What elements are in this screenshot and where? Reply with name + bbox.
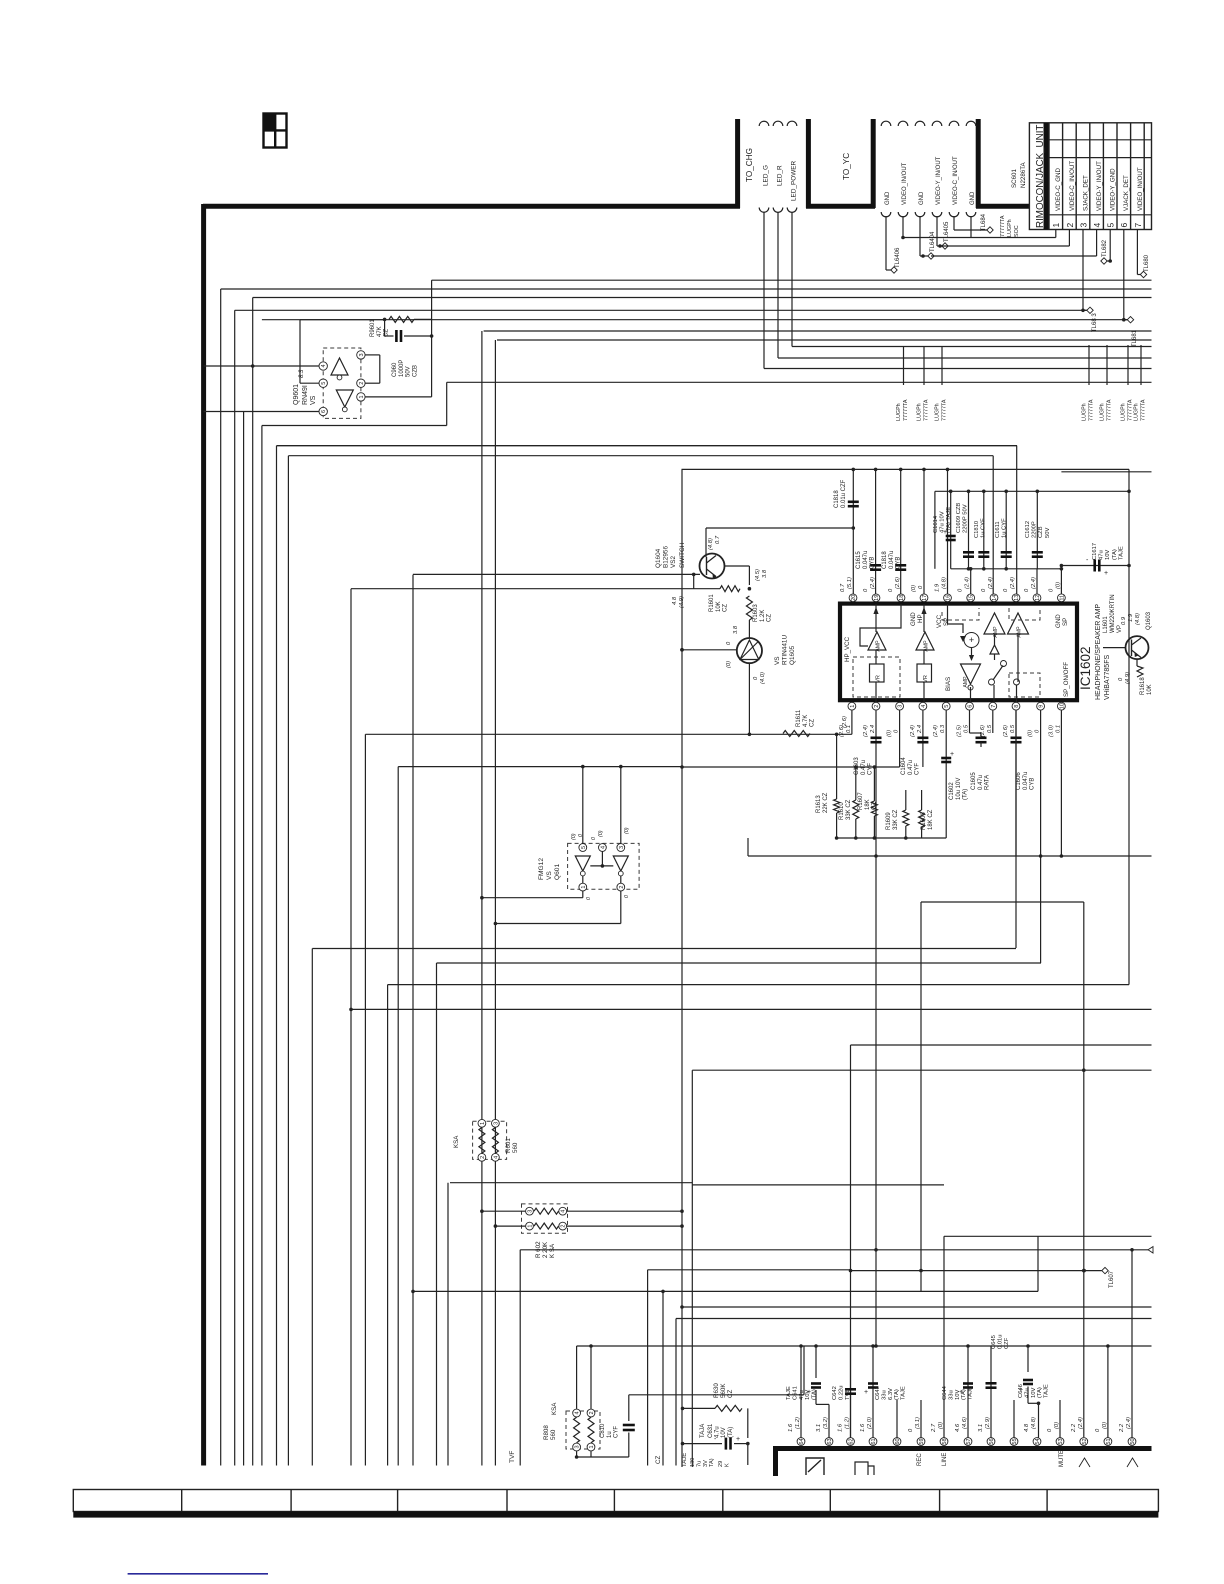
wire Q1604 base net (413, 573, 700, 575)
svg-text:(TA): (TA) (961, 1389, 967, 1400)
pin SOC-59 (917, 1438, 925, 1446)
capacitor C1604 0.47u CYF (922, 711, 924, 768)
svg-text:63: 63 (827, 1438, 833, 1444)
svg-text:R9601: R9601 (370, 319, 376, 337)
wire pin17 stub (923, 469, 925, 594)
svg-text:1000P: 1000P (399, 360, 405, 377)
svg-text:(2.4): (2.4) (910, 725, 916, 737)
svg-text:TAJA: TAJA (700, 1424, 706, 1438)
svg-text:58: 58 (942, 1438, 948, 1444)
wire TO_YC VIDEO-C_IN/OUT (953, 216, 955, 230)
svg-text:1.6: 1.6 (860, 1423, 866, 1432)
svg-text:560: 560 (512, 1142, 519, 1153)
svg-text:10K: 10K (716, 601, 722, 612)
svg-text:MUTE: MUTE (1059, 1450, 1065, 1467)
wire bus net B (221, 288, 1152, 290)
svg-text:HP_VCC: HP_VCC (844, 636, 851, 662)
svg-text:(2.0): (2.0) (867, 1417, 873, 1429)
svg-text:+: + (1104, 570, 1108, 577)
svg-text:0: 0 (578, 834, 584, 837)
svg-text:19: 19 (874, 595, 880, 601)
wire pin58 vertical (943, 1236, 945, 1437)
svg-text:(2.6): (2.6) (1003, 725, 1009, 737)
capacitor C1818 0.01u CZF (852, 469, 854, 594)
wire net T resistor bus (837, 837, 947, 839)
svg-text:6: 6 (1119, 223, 1129, 228)
svg-text:1: 1 (581, 886, 587, 889)
svg-text:10K: 10K (1147, 684, 1153, 695)
svg-text:R1613: R1613 (816, 795, 822, 813)
svg-text:GND: GND (919, 191, 925, 205)
svg-text:VIDEO_IN/OUT: VIDEO_IN/OUT (902, 162, 908, 205)
svg-text:TL6404: TL6404 (930, 231, 936, 252)
svg-text:RTIN441U: RTIN441U (782, 635, 789, 665)
wire pin3 net (899, 711, 901, 768)
wire net M emitter bus (351, 588, 720, 590)
svg-text:SC601: SC601 (1011, 169, 1018, 188)
svg-text:R1611: R1611 (796, 709, 802, 727)
svg-text:3.1: 3.1 (978, 1424, 984, 1432)
pin Q9601-5 (319, 379, 327, 387)
wire pin59 stub (920, 1400, 922, 1438)
wire net AM (413, 1290, 1038, 1292)
svg-text:29: 29 (718, 1461, 724, 1467)
net tag LUGPh 77777TA group2 (1088, 345, 1090, 385)
svg-text:N2286TA: N2286TA (1020, 161, 1027, 188)
wire pin51 vertical (1107, 1346, 1109, 1438)
dashed box IC1602 VR (853, 657, 900, 697)
svg-text:FMG12: FMG12 (538, 858, 545, 880)
svg-text:1: 1 (850, 705, 856, 708)
wire Q601 link (590, 865, 613, 867)
svg-text:RATA: RATA (985, 775, 991, 790)
svg-text:(2.6): (2.6) (895, 577, 901, 589)
wire net AK vertical (519, 1250, 521, 1466)
svg-text:64: 64 (799, 1438, 805, 1444)
svg-text:3: 3 (493, 1122, 499, 1125)
svg-text:CYF: CYF (915, 763, 921, 775)
wire Q601 pin1 out (582, 891, 584, 898)
svg-text:CYF: CYF (614, 1426, 620, 1438)
svg-text:(2.9): (2.9) (985, 1417, 991, 1429)
svg-text:SP_ON/OFF: SP_ON/OFF (1063, 662, 1070, 697)
svg-text:LED_R: LED_R (777, 165, 784, 186)
net terminal TL6406 (891, 267, 897, 273)
wire caps box top (935, 490, 1129, 492)
svg-text:+: + (969, 635, 974, 645)
svg-text:(TA): (TA) (894, 1389, 900, 1400)
svg-text:57: 57 (966, 1438, 972, 1444)
wire Q1603 emitter to R1618 (1136, 659, 1138, 666)
capacitor C1615 0.047u CYB (875, 469, 877, 594)
svg-text:(5.1): (5.1) (847, 577, 853, 589)
wire net R to C1617 (1061, 565, 1129, 567)
svg-text:3: 3 (575, 1445, 581, 1448)
wire pin60 stub (896, 1400, 898, 1438)
capacitor C1614 47u 10V TAJE (950, 491, 952, 569)
pin Q601-2 (617, 883, 625, 891)
svg-text:560K: 560K (720, 1383, 727, 1398)
pin SOC-61 (869, 1438, 877, 1446)
svg-text:GND: GND (910, 612, 917, 626)
svg-text:0.047u: 0.047u (863, 551, 869, 569)
svg-text:C1818: C1818 (834, 490, 840, 508)
svg-text:TAJE: TAJE (1044, 1384, 1050, 1398)
pin IC1602-14 (990, 594, 998, 602)
wire jack pin5 VIDEO-Y_GND to TL682 (1109, 230, 1111, 262)
svg-text:(TA): (TA) (1037, 1387, 1043, 1398)
wire pin16 stub (947, 469, 949, 594)
pin R602-1 (526, 1222, 534, 1230)
resistor R1610 33K CZ (855, 767, 857, 800)
svg-text:(2.6): (2.6) (842, 716, 848, 728)
op-amp IC1602 amp3 (984, 613, 1005, 634)
wire Q1604 collector (705, 528, 707, 557)
pin IC1602-8 (1012, 702, 1020, 710)
svg-text:(TA): (TA) (963, 789, 969, 800)
svg-text:1.6: 1.6 (788, 1423, 794, 1432)
wire net AN (682, 1306, 1152, 1308)
svg-text:4.7K: 4.7K (803, 715, 809, 727)
svg-text:0.7: 0.7 (715, 535, 721, 544)
svg-text:HEADPHONE/SPEAKER AMP: HEADPHONE/SPEAKER AMP (1095, 604, 1102, 700)
pin IC1602-16 (944, 594, 952, 602)
svg-text:LUGPh: LUGPh (1121, 403, 1127, 421)
svg-text:CZ: CZ (767, 614, 773, 622)
svg-text:(4.8): (4.8) (1135, 613, 1141, 625)
svg-text:C1611: C1611 (995, 521, 1001, 538)
svg-text:47K: 47K (377, 326, 383, 337)
svg-text:2.4: 2.4 (917, 725, 923, 734)
svg-text:3: 3 (619, 846, 625, 849)
wire jack pin4 VIDEO-Y_IN/OUT (1096, 230, 1098, 257)
svg-text:(2.4): (2.4) (1078, 1417, 1084, 1429)
wire net AI (450, 1182, 692, 1184)
resistor R601 element2 (492, 1128, 498, 1154)
svg-text:+: + (950, 751, 954, 758)
capacitor C1618 0.047u CYB (900, 469, 902, 594)
svg-text:2: 2 (874, 705, 880, 708)
svg-text:77777TA: 77777TA (924, 399, 930, 421)
wire main ground bus top (203, 204, 740, 209)
svg-text:(2.4): (2.4) (933, 725, 939, 737)
svg-text:TVF: TVF (509, 1451, 516, 1463)
svg-text:77777TA: 77777TA (942, 399, 948, 421)
dashed link IC1602 top (942, 608, 979, 620)
capacitor C631 4.7u 10V (TA) TAJA (683, 1443, 723, 1445)
wire net AG (692, 1184, 944, 1186)
svg-text:TO_CHG: TO_CHG (745, 148, 754, 182)
switch IC1602 (989, 679, 995, 685)
svg-text:560: 560 (550, 1429, 557, 1440)
capacitor C646 47u 10V (TA) TAJE (1027, 1346, 1029, 1372)
svg-text:R1603: R1603 (753, 604, 759, 622)
pin SOC-60 (893, 1438, 901, 1446)
wire pin55 stub (1013, 1400, 1015, 1438)
wire net AJ (944, 1235, 1152, 1237)
svg-text:CZB: CZB (1038, 526, 1044, 538)
svg-text:10: 10 (1059, 703, 1065, 709)
resistor R1611 4.7K CZ (783, 731, 810, 737)
wire C631 down (747, 1444, 749, 1465)
svg-text:(TA): (TA) (728, 1427, 734, 1438)
svg-text:7: 7 (1133, 223, 1143, 228)
pin IC1602-15 (967, 594, 975, 602)
svg-text:C645: C645 (991, 1335, 997, 1349)
page logo checker mark (264, 114, 287, 148)
svg-text:R601: R601 (505, 1138, 512, 1153)
svg-text:1.6: 1.6 (838, 1423, 844, 1432)
pin IC1602-17 (920, 594, 928, 602)
wire Q601 pin2 out (620, 891, 622, 924)
wire net AC (351, 1008, 1152, 1010)
pin Q9601-3 (357, 351, 365, 359)
wire net X vertical (1015, 711, 1017, 949)
pin Q9601-4 (319, 362, 327, 370)
svg-text:Q601: Q601 (554, 864, 561, 880)
svg-text:0.5: 0.5 (964, 724, 970, 733)
svg-text:CZ: CZ (872, 802, 878, 810)
svg-text:VIDEO-Y_GND: VIDEO-Y_GND (1110, 168, 1117, 211)
svg-text:0.47u: 0.47u (978, 775, 984, 790)
pin IC1602-11 (1058, 594, 1066, 602)
svg-text:54: 54 (1035, 1438, 1041, 1444)
svg-text:1: 1 (480, 1122, 486, 1125)
wire jack pin3 SJACK_DET to TL68-3 (1082, 230, 1084, 311)
svg-text:2200P 50V: 2200P 50V (963, 504, 969, 533)
svg-text:(4.0): (4.0) (760, 672, 766, 684)
wire pin12 stub (1036, 569, 1038, 594)
wire TO_YC pin6 GND (970, 216, 972, 238)
wire net AE down-right L2 (692, 1069, 1151, 1071)
svg-text:(4.5): (4.5) (755, 569, 761, 581)
svg-text:VIDEO-Y_IN/OUT: VIDEO-Y_IN/OUT (1096, 161, 1103, 211)
svg-text:0.9: 0.9 (1121, 616, 1127, 625)
svg-text:3: 3 (359, 353, 365, 356)
SOC internal glyphs (806, 1458, 824, 1475)
svg-text:0.01u CZF: 0.01u CZF (841, 479, 847, 508)
wire net AM vertical (1037, 1236, 1039, 1291)
pin R601-2 (478, 1153, 486, 1161)
capacitor C1606 0.047u CYB (1015, 711, 1017, 857)
resistor R1601 10K CZ (693, 574, 695, 588)
pin IC1602-10 (1058, 702, 1066, 710)
svg-text:+: + (736, 1436, 740, 1443)
wire TO_YC VIDEO_IN/OUT (902, 216, 904, 238)
svg-text:6: 6 (968, 705, 974, 708)
svg-text:VIDEO-Y_IN/OUT: VIDEO-Y_IN/OUT (936, 156, 942, 205)
svg-text:WM220KRTIN: WM220KRTIN (1110, 594, 1116, 633)
svg-text:LUGPh: LUGPh (1134, 403, 1140, 421)
wire net AL TL607 (851, 1270, 1102, 1272)
wire LED_POWER (791, 212, 793, 347)
wire Q9601 pin3-pin2 loop (365, 354, 380, 356)
svg-text:4: 4 (561, 1210, 567, 1213)
off-page arrows below SOC (1079, 1458, 1090, 1467)
svg-text:(3.2): (3.2) (823, 1417, 829, 1429)
resistor R1603 1.2K CZ (746, 596, 752, 620)
svg-text:1.2K: 1.2K (760, 610, 766, 622)
svg-text:C1604: C1604 (901, 757, 907, 775)
svg-text:K: K (724, 1463, 730, 1467)
svg-text:C810: C810 (600, 1423, 606, 1438)
wire Q1603 base (1103, 647, 1126, 649)
svg-text:33K CZ: 33K CZ (893, 809, 899, 830)
wire IC1602 amp2 chain (923, 604, 925, 632)
wire pin14 from bus (992, 456, 994, 594)
pin IC1602-6 (966, 702, 974, 710)
svg-text:0.5: 0.5 (1010, 724, 1016, 733)
pin IC1602-1 (848, 702, 856, 710)
inverter Q9601 gate1 (331, 358, 348, 375)
wire TO_YC VIDEO-Y_IN/OUT to TL6405 (936, 216, 938, 246)
wire left bus vertical 3 (243, 412, 245, 1466)
connector TO_YC (881, 121, 891, 126)
wire TO_YC pin3 GND to TL6404 (919, 216, 921, 256)
svg-text:47u: 47u (1099, 550, 1105, 560)
pin SOC-62 (847, 1438, 855, 1446)
wire R808 pins down (576, 1451, 578, 1457)
svg-text:TL607: TL607 (1109, 1270, 1115, 1288)
pin IC1602-13 (1012, 594, 1020, 602)
inverter Q601 gate2 (613, 856, 628, 871)
svg-text:3.8: 3.8 (733, 625, 739, 634)
resistor array R602 20K KSA dashed outline (522, 1204, 568, 1233)
svg-text:1: 1 (528, 1225, 534, 1228)
svg-text:(0): (0) (887, 730, 893, 737)
svg-text:0.047u: 0.047u (889, 551, 895, 569)
wire bus net E (262, 319, 1127, 321)
wire net O (398, 766, 682, 768)
svg-text:C1602: C1602 (949, 782, 955, 800)
svg-text:0.3: 0.3 (940, 724, 946, 733)
svg-text:0.22u: 0.22u (838, 1385, 844, 1400)
svg-text:TVB: TVB (845, 1389, 851, 1400)
connector TO_CHG left wall (735, 119, 740, 208)
capacitor C1612 2200P CZB 50V (1036, 491, 1038, 569)
wire IC1602 amp1 chain (875, 604, 877, 632)
svg-text:SJACK_DET: SJACK_DET (1082, 175, 1089, 211)
svg-text:8: 8 (1014, 705, 1020, 708)
svg-text:77777TA: 77777TA (1089, 399, 1095, 421)
svg-text:LUGPh: LUGPh (1082, 403, 1088, 421)
svg-text:12: 12 (1035, 595, 1041, 601)
wire net V vertical (920, 902, 922, 1291)
svg-text:(0): (0) (1055, 582, 1061, 589)
wire R1603 to Q1605 (748, 620, 750, 638)
wire left bus vertical 13 (412, 575, 414, 1466)
wire pin53 stub (1059, 1400, 1061, 1438)
wire Q601 pin3 up (620, 767, 622, 844)
capacitor C1602 10u 10V (TA) (945, 711, 947, 839)
svg-text:C1617: C1617 (1092, 543, 1098, 560)
wire R602 row1 (482, 1210, 525, 1212)
svg-text:LUGPh: LUGPh (935, 403, 941, 421)
svg-text:59: 59 (919, 1438, 925, 1444)
svg-text:KSA: KSA (453, 1135, 460, 1148)
svg-text:5: 5 (944, 705, 950, 708)
svg-text:R1607: R1607 (858, 792, 864, 810)
wire caps bottom bus (951, 568, 1062, 570)
resistor R1606 18K CZ (919, 810, 925, 827)
svg-text:TL6406: TL6406 (895, 247, 901, 268)
svg-text:VS: VS (774, 656, 781, 665)
svg-text:6: 6 (321, 410, 327, 413)
svg-text:VHiBA7785FS: VHiBA7785FS (1104, 655, 1111, 700)
svg-text:CYB: CYB (1030, 778, 1036, 790)
svg-text:4.8: 4.8 (1024, 1423, 1030, 1432)
wire Q1604 emitter (725, 565, 750, 567)
pin IC1602-9 (1037, 702, 1045, 710)
svg-text:4: 4 (1092, 223, 1102, 228)
svg-text:(0): (0) (624, 827, 630, 834)
resistor R630 560K CZ (683, 1407, 716, 1409)
svg-text:C1818: C1818 (882, 551, 888, 569)
svg-text:HP: HP (917, 614, 924, 623)
svg-text:TA): TA) (709, 1458, 715, 1467)
capacitor C644 33u 10V (TA) TAJE (967, 1346, 969, 1438)
svg-text:13: 13 (1014, 595, 1020, 601)
svg-text:C1606: C1606 (1016, 772, 1022, 790)
wire left bus vertical 5 (261, 426, 263, 1466)
wire left bus vertical 11 (364, 734, 366, 1465)
wire left bus vertical 14 (436, 963, 438, 1466)
wire net K (447, 381, 1152, 383)
svg-text:CYF: CYF (868, 763, 874, 775)
svg-text:LINE: LINE (942, 1453, 948, 1466)
svg-text:4.6: 4.6 (955, 1423, 961, 1432)
svg-text:(4.6): (4.6) (962, 1417, 968, 1429)
svg-text:TL681: TL681 (1132, 329, 1138, 347)
svg-text:22K CZ: 22K CZ (823, 792, 829, 813)
pin R601-4 (492, 1153, 500, 1161)
net tag LUGPh 77777TA group1 (903, 347, 905, 386)
svg-text:C644: C644 (942, 1385, 948, 1400)
pin Q9601-1 (357, 393, 365, 401)
svg-text:7: 7 (991, 705, 997, 708)
wire net X (312, 948, 1016, 950)
transistor Q1605 RTIN441U (737, 638, 762, 663)
svg-text:R1610: R1610 (839, 802, 845, 820)
resistor R1618 10K (1137, 666, 1143, 677)
pin SOC-64 (797, 1438, 805, 1446)
pin IC1602-5 (942, 702, 950, 710)
wire pin1 net (851, 711, 853, 735)
pin SOC-54 (1033, 1438, 1041, 1446)
wire jack pin2 VIDEO-C_IN/OUT (1068, 230, 1070, 247)
svg-text:18: 18 (899, 595, 905, 601)
svg-text:VS: VS (310, 395, 317, 405)
svg-text:VR: VR (923, 675, 929, 683)
wire net AQ vertical (662, 1291, 664, 1465)
svg-text:(2.4): (2.4) (863, 725, 869, 737)
pin IC1602-19 (872, 594, 880, 602)
pin SOC-63 (825, 1438, 833, 1446)
svg-text:77777TA: 77777TA (903, 399, 909, 421)
svg-text:61: 61 (871, 1438, 877, 1444)
svg-text:1: 1 (589, 1445, 595, 1448)
wire left bus vertical 2 (234, 310, 236, 1465)
svg-text:L1601: L1601 (1103, 616, 1109, 633)
svg-text:62: 62 (849, 1438, 855, 1444)
svg-text:0: 0 (591, 837, 597, 840)
svg-text:1u CYF: 1u CYF (981, 518, 987, 538)
wire long vertical net at x682 (681, 469, 683, 1467)
svg-text:VIDEO-C_GND: VIDEO-C_GND (1055, 167, 1062, 211)
pin SOC-55 (1010, 1438, 1018, 1446)
footer rule (128, 1573, 268, 1575)
svg-text:(3.0): (3.0) (1048, 725, 1054, 737)
